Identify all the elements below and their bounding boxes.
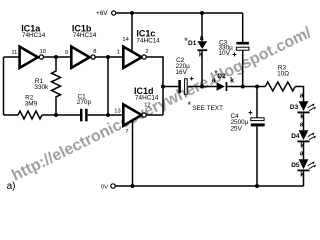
svg-text:*: * [188, 100, 192, 110]
capacitor C3 330u [219, 39, 249, 86]
resistor R1 330k [34, 57, 60, 115]
svg-text:D1: D1 [188, 40, 197, 47]
LED D5 [291, 151, 316, 179]
node mid drop junction [106, 55, 110, 59]
wire IC1d out to joint [146, 114, 163, 116]
svg-text:1: 1 [117, 50, 120, 56]
svg-text:SEE TEXT: SEE TEXT [192, 105, 223, 112]
svg-text:330k: 330k [34, 84, 49, 91]
node C4 top junction [255, 85, 259, 89]
wire left feedback [4, 57, 20, 115]
svg-text:D4: D4 [291, 133, 300, 140]
svg-text:74HC14: 74HC14 [135, 95, 159, 102]
diode D2 [212, 69, 234, 91]
svg-text:74HC14: 74HC14 [22, 32, 46, 39]
node C4 rail junction [255, 184, 259, 188]
svg-text:74HC14: 74HC14 [136, 37, 160, 44]
capacitor C4 2500u [231, 87, 265, 187]
wire 0V rail [115, 185, 303, 187]
node pin7 rail junction [131, 184, 135, 188]
wire C2 to D2 [188, 86, 217, 88]
wire D5 to 0V rail [303, 171, 305, 186]
svg-text:3M9: 3M9 [25, 100, 38, 107]
svg-text:11: 11 [11, 50, 17, 56]
capacitor C2 220u [176, 57, 194, 94]
wire IC1b out to IC1c in [95, 56, 123, 58]
capacitor C1 270p [77, 94, 92, 122]
resistor R2 3M9 [18, 95, 42, 119]
svg-text:12: 12 [144, 103, 150, 109]
svg-text:25V: 25V [231, 125, 243, 132]
inverter IC1c [117, 28, 161, 68]
svg-text:+6V: +6V [96, 10, 108, 17]
svg-text:13: 13 [114, 109, 120, 115]
wire top rail [116, 12, 243, 14]
wire mid drop to row2 [107, 57, 109, 115]
node row2 junction [106, 113, 110, 117]
svg-text:9: 9 [65, 50, 68, 56]
svg-text:0V: 0V [101, 184, 108, 190]
svg-text:a: a [300, 122, 304, 129]
svg-text:8: 8 [93, 49, 96, 55]
node R1 top junction [54, 55, 58, 59]
svg-text:D5: D5 [291, 162, 300, 169]
node R1 bottom junction [54, 113, 58, 117]
node top rail / D1 junction [200, 11, 204, 15]
wire IC1a out to IC1b in [44, 56, 72, 58]
svg-text:k: k [230, 77, 234, 84]
svg-text:74HC14: 74HC14 [73, 32, 97, 39]
wire C1 to IC1d in [88, 114, 124, 116]
node C2 branch junction [161, 85, 165, 89]
wire C2 row left [163, 86, 178, 88]
label see text [188, 100, 224, 112]
LED D4 [291, 122, 316, 150]
svg-text:7: 7 [125, 129, 128, 135]
inverter IC1b [65, 23, 97, 68]
wire D4 to D5 [303, 142, 305, 159]
wire IC1c pin 14 drop [131, 13, 133, 52]
svg-text:10V: 10V [219, 50, 231, 57]
+6V terminal [96, 10, 116, 17]
diode D1 [184, 13, 207, 87]
wire C3 drop from rail [242, 13, 244, 43]
svg-text:2: 2 [145, 49, 148, 55]
svg-text:a: a [212, 77, 216, 84]
svg-text:10Ω: 10Ω [277, 70, 289, 77]
resistor R3 10ohm [265, 64, 295, 91]
node top rail / IC1c pin14 junction [130, 11, 134, 15]
svg-text:a: a [300, 93, 304, 100]
svg-text:a: a [300, 151, 304, 158]
node C3 bottom junction [241, 85, 245, 89]
inverter IC1d [114, 86, 159, 135]
svg-text:16V: 16V [176, 69, 188, 76]
LED D3 [290, 93, 316, 121]
wire D2 to R3 [227, 86, 265, 88]
wire IC1c out down to C2 row [146, 57, 163, 115]
svg-text:10: 10 [40, 49, 46, 55]
wire R3 to LED column [295, 87, 303, 103]
svg-text:D2: D2 [217, 73, 226, 80]
wire IC1d pin 7 to 0V rail [132, 121, 134, 187]
0V terminal [101, 184, 115, 191]
wire D3 to D4 [303, 113, 305, 130]
wire R2 to C1 [42, 114, 80, 116]
inverter IC1a [11, 23, 46, 68]
svg-text:270p: 270p [77, 99, 92, 106]
svg-text:a): a) [7, 181, 16, 192]
svg-text:D3: D3 [290, 104, 299, 111]
node D1 bottom junction [200, 85, 204, 89]
svg-text:14: 14 [122, 37, 129, 43]
